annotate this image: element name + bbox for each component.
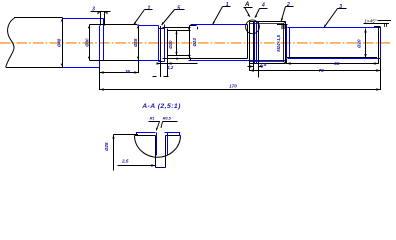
blue long bottom edge under S4/thread xyxy=(189,60,286,62)
svg-text:M24×1,5: M24×1,5 xyxy=(276,34,281,51)
svg-text:1×45°: 1×45° xyxy=(364,18,377,23)
svg-text:Ø30: Ø30 xyxy=(85,38,90,47)
centerline of shaft xyxy=(0,42,390,44)
vertical dim line on S3b x=176.5 xyxy=(176,31,178,56)
thread thin lines xyxy=(250,24,284,62)
dim 2,5 (thread groove) xyxy=(248,64,263,78)
blue S2' top and bottom edge continuations xyxy=(138,26,161,61)
svg-text:4,2: 4,2 xyxy=(166,65,174,70)
svg-text:R1: R1 xyxy=(150,115,155,120)
detail bowl outline xyxy=(135,136,181,158)
svg-text:36: 36 xyxy=(125,69,131,74)
svg-text:2,5: 2,5 xyxy=(121,159,129,164)
dim 36 xyxy=(100,72,139,74)
svg-text:Ø20: Ø20 xyxy=(168,40,173,49)
shaft section S2 outline xyxy=(90,25,139,61)
svg-text:R0,5: R0,5 xyxy=(163,115,172,120)
svg-text:4: 4 xyxy=(261,2,265,8)
thread groove blue edges xyxy=(255,22,257,64)
S6 black lines xyxy=(287,27,381,59)
detail circle A xyxy=(246,20,260,34)
svg-text:2,5: 2,5 xyxy=(259,62,267,67)
svg-text:A-A (2,5:1): A-A (2,5:1) xyxy=(141,103,181,110)
dim 2,5 on detail xyxy=(118,165,156,167)
dim 4,2 line with tail xyxy=(157,63,198,65)
thread groove black edges xyxy=(254,22,259,64)
dim arrows on S2 right face xyxy=(137,25,139,60)
blue section S1' rectangle xyxy=(63,19,104,68)
thread chamfer diagonals xyxy=(284,22,286,64)
dim arrows on S4 left face xyxy=(188,26,190,58)
svg-text:56: 56 xyxy=(334,61,340,66)
detail groove slot xyxy=(156,136,166,168)
svg-text:5: 5 xyxy=(177,5,180,11)
shaft break line (left end) xyxy=(6,18,16,68)
blue neck' (relief groove) xyxy=(159,25,165,62)
dim O20 on right end xyxy=(365,29,367,59)
dim 56 xyxy=(287,63,379,65)
dim O28 on detail xyxy=(114,135,139,171)
thread end corner marks xyxy=(277,25,288,30)
neck / S3b top edges xyxy=(163,27,191,29)
dim 76 xyxy=(250,70,381,72)
svg-text:3: 3 xyxy=(339,4,342,10)
svg-text:1: 1 xyxy=(226,2,229,8)
shaft section S1 outline xyxy=(6,18,63,68)
svg-text:1: 1 xyxy=(148,5,151,11)
S6 right section (blue) xyxy=(287,25,381,59)
svg-text:Ø28: Ø28 xyxy=(133,38,138,47)
groove width dim 3 extension lines xyxy=(91,12,111,26)
svg-text:170: 170 xyxy=(229,84,237,89)
svg-text:Ø48: Ø48 xyxy=(57,38,62,47)
black neck extension lines xyxy=(161,26,168,77)
S3b bottom edges xyxy=(168,55,191,57)
dim arrows on S2 left face xyxy=(88,25,90,60)
blue groove left edge in S2 xyxy=(99,26,101,68)
dim 170 xyxy=(100,89,381,91)
small dashes below neck xyxy=(153,76,169,78)
svg-text:2: 2 xyxy=(286,2,290,8)
svg-text:Ø20: Ø20 xyxy=(357,39,362,48)
diameter dim arrows on S1 face xyxy=(61,18,63,67)
svg-text:76: 76 xyxy=(319,68,325,73)
svg-text:Ø24: Ø24 xyxy=(192,38,197,47)
blue S4' top edge xyxy=(191,24,248,26)
svg-text:Ø28: Ø28 xyxy=(104,142,109,151)
svg-text:3: 3 xyxy=(92,6,95,12)
thread section outline xyxy=(250,22,286,64)
S4 outline xyxy=(190,25,248,59)
blue caps on detail xyxy=(137,133,180,168)
